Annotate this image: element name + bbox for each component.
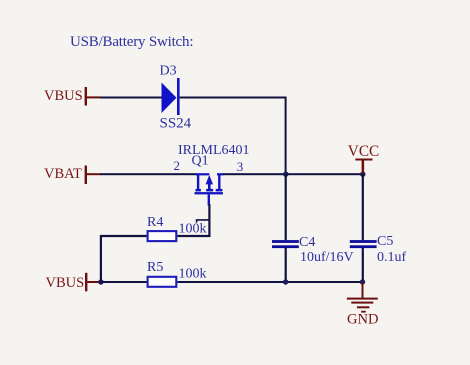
power port VBUS top [44,87,101,106]
capacitor C5 [350,240,377,248]
svg-text:0.1uf: 0.1uf [377,250,407,265]
junction node at GND [360,279,365,284]
svg-text:100k: 100k [179,222,207,237]
wire R4 right side up to Q1 gate [177,204,209,236]
svg-text:C4: C4 [299,235,315,250]
svg-text:Q1: Q1 [192,154,209,169]
wire C4 bottom to bottom rail [285,248,287,283]
resistor R5 [148,277,177,287]
wire R4 left side down to VBUS node [101,236,147,282]
svg-text:GND: GND [347,312,378,328]
wire stub over 100k [197,220,209,223]
svg-text:SS24: SS24 [160,116,192,132]
svg-text:IRLML6401: IRLML6401 [178,143,250,158]
svg-text:R4: R4 [147,215,163,230]
svg-text:D3: D3 [160,64,177,79]
wire C5 bottom to GND node [362,248,364,283]
capacitor C4 [272,240,299,248]
svg-text:2: 2 [174,158,181,173]
wire R5 right to GND rail [177,281,362,283]
power port VCC [348,143,379,174]
svg-text:10uf/16V: 10uf/16V [300,250,354,265]
svg-text:VBUS: VBUS [46,275,85,291]
svg-text:100k: 100k [179,267,207,282]
svg-text:VBUS: VBUS [44,88,83,104]
junction node at x=285.6 y=174 [283,172,288,177]
diode D3 [162,78,180,115]
power port VBUS bottom [46,273,101,292]
wire VBAT to Q1 pin 2 [100,173,197,175]
junction node VBUS bottom [98,279,103,284]
junction node at C4 rail bottom [283,279,288,284]
svg-text:VBAT: VBAT [44,166,82,182]
svg-text:3: 3 [237,159,244,174]
wire Q1 pin 3 to VCC [223,173,363,175]
wire VBUS node to R5 [101,281,147,283]
wire VCC rail down to C4 [285,174,287,240]
wire VCC node down to C5 [362,174,364,240]
wire VBUS to D3 anode [100,97,162,99]
svg-text:USB/Battery Switch:: USB/Battery Switch: [70,34,193,50]
ground GND symbol [347,282,378,313]
svg-text:C5: C5 [377,234,393,249]
power port VBAT [44,166,101,185]
junction node at VCC x=363 y=174 [360,172,365,177]
wire D3 cathode to top-right corner down to VCC rail [180,98,286,175]
svg-text:VCC: VCC [348,143,379,160]
svg-text:R5: R5 [147,260,163,275]
resistor R4 [148,231,177,241]
transistor Q1 (P-MOSFET) [195,173,224,205]
